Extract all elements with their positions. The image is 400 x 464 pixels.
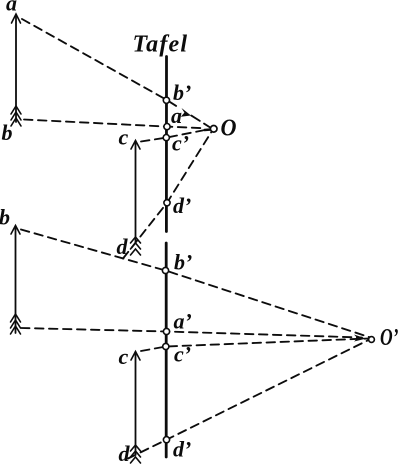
svg-text:c: c	[119, 125, 129, 150]
point O'	[369, 337, 375, 343]
arrowhead at a	[12, 14, 21, 23]
ray a'-O' (horizontal)	[21, 328, 362, 338]
segment cd (bottom object arrow)	[135, 352, 137, 454]
feather at b	[11, 106, 21, 126]
arrowhead at c	[131, 141, 140, 150]
svg-text:c’: c’	[174, 342, 191, 367]
ray c-c'-O	[141, 130, 203, 141]
point O	[210, 126, 217, 133]
ray b'-O with arrowhead	[166, 100, 211, 129]
segment ab (object arrow)	[15, 15, 17, 122]
svg-text:d: d	[119, 441, 131, 464]
point c'	[163, 135, 169, 141]
feather at d	[131, 237, 141, 255]
svg-text:d’: d’	[173, 437, 191, 462]
point c' (bottom)	[163, 343, 169, 349]
svg-text:a: a	[171, 103, 182, 128]
svg-text:O’: O’	[380, 324, 399, 351]
ray d-d'-O'	[128, 340, 370, 459]
ray b-a'-O	[24, 120, 203, 129]
solid dash at O	[205, 128, 212, 131]
feather at lower end (bottom-left arrow)	[11, 314, 21, 334]
arrowhead on ray before O'	[354, 335, 366, 342]
Tafel panel line (bottom figure)	[165, 243, 168, 457]
feather at d (bottom)	[131, 445, 141, 463]
point d' (bottom)	[163, 437, 169, 443]
arrowhead on ray b'-O	[181, 108, 191, 117]
svg-text:O: O	[221, 115, 237, 142]
ray b-b'-O'	[21, 230, 369, 338]
svg-text:a’: a’	[174, 309, 192, 334]
svg-text:d’: d’	[173, 193, 191, 218]
point a'	[164, 124, 170, 130]
segment cd (object arrow)	[135, 141, 137, 243]
segment at b (object arrow, bottom figure)	[15, 226, 17, 333]
svg-text:b’: b’	[174, 250, 192, 275]
svg-text:d: d	[117, 234, 129, 259]
point d'	[164, 200, 170, 206]
point b' (bottom)	[162, 267, 168, 273]
point a' (bottom)	[163, 328, 169, 334]
point b'	[163, 97, 169, 103]
svg-text:b’: b’	[173, 80, 191, 105]
svg-text:c: c	[119, 344, 129, 369]
ray c-c'-O'	[141, 339, 368, 352]
ray d-d'-O	[123, 131, 212, 259]
svg-text:c’: c’	[172, 131, 189, 156]
arrowhead at b (bottom)	[11, 226, 20, 235]
Tafel panel line (top figure)	[165, 57, 168, 232]
svg-text:b: b	[0, 205, 10, 230]
svg-text:b: b	[2, 120, 13, 145]
arrowhead at c (bottom)	[131, 352, 140, 361]
ray a-b'	[22, 19, 166, 100]
svg-text:a: a	[6, 0, 17, 16]
svg-text:Tafel: Tafel	[133, 32, 189, 58]
